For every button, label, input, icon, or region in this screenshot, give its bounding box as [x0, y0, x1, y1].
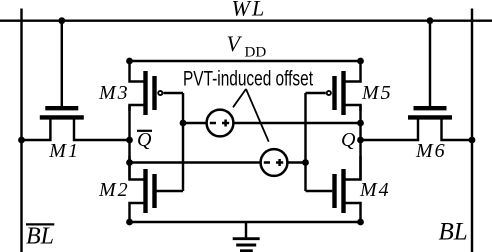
- voltage source V2 (PVT offset, lower): [261, 149, 288, 176]
- callout line to V1: [233, 89, 246, 107]
- transistor M2 (NMOS, left inverter pull-down): [130, 156, 184, 222]
- wire WL rail: [0, 19, 492, 21]
- node junction right gate/lower wire: [302, 159, 309, 166]
- wire node Q vertical (right inverter output): [359, 105, 361, 180]
- wire WL to M1 gate: [61, 21, 63, 107]
- wire upper cross-coupling (Q to left gate): [183, 122, 206, 124]
- transistor M5 (PMOS, right inverter pull-up): [306, 61, 361, 115]
- svg-text:BL: BL: [26, 224, 54, 250]
- node junction Q/M6: [357, 137, 364, 144]
- node junction left gate/upper wire: [180, 120, 187, 127]
- wire node QB vertical (left inverter output): [128, 105, 130, 180]
- wire BLB bitline (left): [20, 9, 22, 252]
- label node QB: [137, 129, 152, 151]
- transistor M1 (NMOS access, horizontal): [22, 108, 130, 140]
- polarity marks V2: [264, 159, 283, 166]
- node junction VDD right: [357, 58, 364, 65]
- svg-text:Q: Q: [137, 129, 152, 151]
- node junction Q/upper wire: [357, 120, 364, 127]
- label node BLB: [26, 224, 54, 250]
- wire left inverter input vertical: [182, 93, 184, 191]
- svg-text:M4: M4: [359, 179, 391, 201]
- polarity marks V1: [210, 120, 229, 127]
- svg-text:M3: M3: [98, 82, 130, 104]
- transistor M4 (NMOS, right inverter pull-down): [306, 156, 361, 222]
- node junction ground left: [126, 219, 133, 226]
- wire WL to M6 gate: [429, 21, 431, 107]
- node junction QB/M1: [126, 137, 133, 144]
- svg-text:DD: DD: [245, 45, 267, 61]
- transistor M3 (PMOS, left inverter pull-up): [130, 61, 184, 115]
- node junction ground right: [357, 219, 364, 226]
- node junction VDD left: [126, 58, 133, 65]
- wire ground rail: [130, 221, 361, 223]
- svg-text:V: V: [227, 31, 243, 56]
- node junction BLB/M1: [18, 137, 25, 144]
- svg-text:WL: WL: [232, 0, 267, 21]
- voltage source V1 (PVT offset, upper): [207, 110, 234, 137]
- wire VDD rail: [130, 60, 361, 62]
- svg-text:M2: M2: [98, 179, 130, 201]
- node junction BL/M6: [469, 137, 476, 144]
- svg-text:M6: M6: [415, 140, 447, 162]
- node junction QB/lower wire: [126, 159, 133, 166]
- wire BL bitline (right): [471, 9, 473, 252]
- svg-text:BL: BL: [439, 219, 468, 246]
- node junction WL/M6: [427, 17, 434, 24]
- wire right inverter input vertical: [304, 93, 306, 191]
- svg-text:M5: M5: [361, 82, 393, 104]
- svg-text:PVT-induced offset: PVT-induced offset: [183, 67, 313, 90]
- svg-text:Q: Q: [341, 129, 356, 151]
- transistor M6 (NMOS access, horizontal): [361, 108, 473, 140]
- callout line to V2: [246, 89, 269, 142]
- wire lower cross-coupling (QB to right gate): [130, 161, 260, 163]
- node junction WL/M1: [58, 17, 65, 24]
- svg-text:M1: M1: [48, 140, 80, 162]
- ground: [233, 222, 260, 251]
